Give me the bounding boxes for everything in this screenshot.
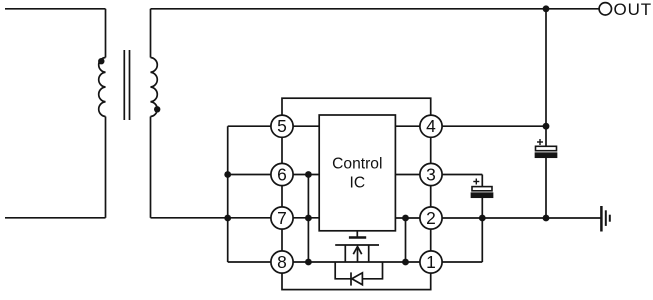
svg-text:3: 3 bbox=[426, 165, 436, 185]
capacitor C2 positive plate bbox=[472, 187, 492, 191]
wire secondary bottom lead bbox=[150, 117, 152, 218]
label Control IC bbox=[332, 156, 382, 192]
wire pin4 row bbox=[395, 125, 546, 127]
wire pin2 row to ground bbox=[395, 217, 601, 219]
capacitor C2 plus sign bbox=[473, 179, 479, 185]
wire left bus rail bbox=[227, 126, 229, 262]
transformer T1 secondary winding bbox=[151, 58, 158, 117]
module frame bbox=[282, 98, 431, 289]
ground symbol bbox=[601, 206, 609, 232]
wire primary top lead bbox=[105, 9, 107, 58]
pin 8 bbox=[271, 251, 293, 273]
terminal OUT circle bbox=[599, 3, 611, 15]
pin 1 bbox=[420, 251, 442, 273]
wire secondary to pin7 row bbox=[151, 217, 320, 219]
node inner bus pin8 junction bbox=[305, 259, 312, 266]
transistor Q1 gate plate bbox=[349, 236, 366, 238]
svg-text:IC: IC bbox=[350, 174, 366, 191]
pin 4 bbox=[420, 115, 442, 137]
capacitor C2 negative plate bbox=[472, 193, 493, 197]
capacitor C1 positive plate bbox=[536, 146, 557, 150]
svg-text:8: 8 bbox=[277, 252, 287, 272]
node inner right pin2 junction bbox=[402, 215, 409, 222]
node cap1 ground junction bbox=[543, 215, 550, 222]
wire bottom-left input bbox=[5, 217, 106, 219]
transistor Q1 drain leg bbox=[344, 245, 346, 262]
wire inner right bus bbox=[405, 218, 407, 262]
pin 5 bbox=[271, 115, 293, 137]
pin 2 bbox=[420, 207, 442, 229]
pin 3 bbox=[420, 163, 442, 185]
wire pin1 riser bbox=[481, 218, 483, 262]
diode D1 bbox=[351, 272, 362, 285]
node inner bus pin7 junction bbox=[305, 215, 312, 222]
svg-text:Control: Control bbox=[332, 156, 382, 173]
wire pin5 row bbox=[228, 125, 320, 127]
node cap2 ground junction bbox=[479, 215, 486, 222]
transistor Q1 source leg bbox=[368, 245, 370, 262]
transformer T1 primary winding bbox=[99, 58, 106, 117]
wire pin8 row bbox=[228, 261, 483, 263]
node left rail pin6 junction bbox=[224, 171, 231, 178]
node pin4 cap junction bbox=[543, 123, 550, 130]
node secondary dot bbox=[154, 106, 160, 112]
control IC U1 box bbox=[319, 115, 395, 231]
node primary dot bbox=[98, 58, 104, 64]
pin 6 bbox=[271, 163, 293, 185]
svg-text:6: 6 bbox=[277, 165, 287, 185]
wire pin6 row bbox=[228, 174, 320, 176]
svg-text:5: 5 bbox=[277, 116, 287, 136]
wire cap C2 drop bbox=[481, 175, 483, 219]
transistor Q1 gate lead bbox=[356, 231, 358, 238]
node inner bus pin6 junction bbox=[305, 171, 312, 178]
wire primary bottom lead bbox=[105, 117, 107, 218]
pin 7 bbox=[271, 207, 293, 229]
transistor Q1 channel bar bbox=[335, 244, 379, 246]
wire inner left bus bbox=[307, 175, 309, 263]
node inner right pin1 junction bbox=[402, 259, 409, 266]
node left rail pin7 junction bbox=[224, 215, 231, 222]
capacitor C1 plus sign bbox=[537, 139, 543, 145]
diode D1 loop bbox=[335, 262, 382, 279]
node top rail junction bbox=[543, 5, 550, 12]
wire top output rail bbox=[151, 8, 600, 10]
transistor Q1 body arrow bbox=[353, 247, 361, 263]
svg-text:2: 2 bbox=[426, 208, 436, 228]
svg-text:4: 4 bbox=[426, 116, 436, 136]
wire output cap drop bbox=[545, 9, 547, 218]
transformer T1 core bbox=[124, 50, 129, 120]
svg-text:7: 7 bbox=[277, 208, 287, 228]
wire top-left input bbox=[5, 8, 106, 10]
svg-text:1: 1 bbox=[426, 252, 436, 272]
wire secondary top lead bbox=[150, 9, 152, 58]
capacitor C1 negative plate bbox=[536, 153, 557, 157]
wire pin3 row bbox=[395, 174, 482, 176]
svg-text:OUT: OUT bbox=[614, 0, 653, 19]
